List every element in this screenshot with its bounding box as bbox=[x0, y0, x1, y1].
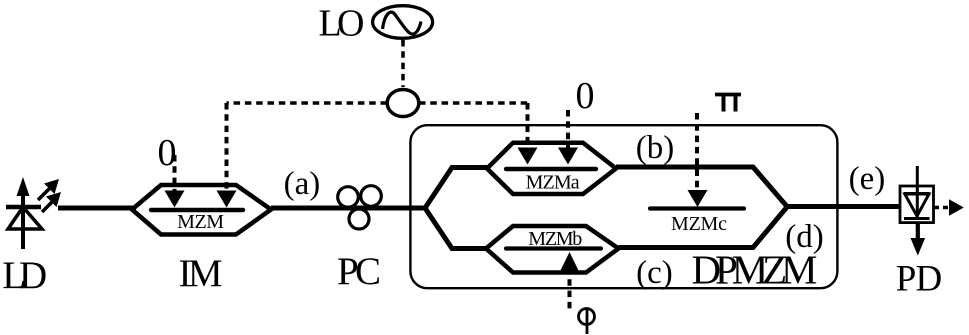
IM RF arrow right (from LO) bbox=[217, 103, 237, 208]
MZMa bias arrow bbox=[558, 110, 578, 165]
svg-text:MZMa: MZMa bbox=[526, 172, 580, 194]
svg-text:(e): (e) bbox=[849, 161, 886, 197]
IM electrode bar bbox=[151, 208, 243, 212]
svg-text:IM: IM bbox=[179, 252, 223, 295]
LD emission arrow 1 bbox=[38, 179, 59, 200]
MZMb electrode bar bbox=[506, 246, 601, 250]
wire IM to DPMZM bbox=[271, 206, 427, 211]
photodetector PD bbox=[900, 166, 934, 223]
modulator IM hexagon bbox=[132, 185, 271, 235]
upper arm wire MZMa to combiner bbox=[616, 167, 787, 207]
svg-text:MZMb: MZMb bbox=[528, 228, 582, 250]
MZMa electrode bar bbox=[506, 167, 596, 171]
svg-text:(b): (b) bbox=[636, 130, 674, 166]
svg-text:PD: PD bbox=[896, 259, 943, 300]
LD emission arrow 2 bbox=[42, 192, 61, 212]
dashed wire splitter to MZMa bbox=[419, 101, 528, 105]
MZMb phase arrow (phi) bbox=[561, 252, 579, 311]
label phi bbox=[579, 309, 595, 335]
MZMa RF arrow (from LO) bbox=[518, 103, 538, 165]
svg-text:MZMc: MZMc bbox=[671, 213, 727, 235]
polarization controller PC bbox=[338, 186, 382, 229]
svg-text:MZM: MZM bbox=[177, 211, 224, 233]
output wire to PD bbox=[787, 204, 900, 209]
laser diode LD symbol bbox=[6, 177, 42, 249]
svg-text:PC: PC bbox=[337, 250, 381, 293]
PD output arrow down bbox=[911, 223, 926, 256]
MZMc bias arrow (pi) bbox=[688, 113, 708, 207]
RF splitter bbox=[387, 90, 419, 117]
IM bias arrow left bbox=[165, 155, 185, 208]
wire LO to splitter (dashed) bbox=[401, 40, 405, 87]
modulator MZMb hexagon bbox=[486, 226, 619, 273]
PD RF out dashed arrow bbox=[934, 199, 964, 215]
modulator MZMa hexagon bbox=[487, 143, 616, 194]
label pi bbox=[715, 94, 741, 112]
LO source bbox=[373, 6, 433, 39]
svg-text:LO: LO bbox=[319, 2, 365, 44]
svg-text:LD: LD bbox=[2, 254, 47, 297]
svg-text:0: 0 bbox=[158, 132, 177, 174]
wire LD to IM bbox=[58, 206, 136, 211]
svg-text:(a): (a) bbox=[284, 166, 321, 202]
svg-text:0: 0 bbox=[576, 75, 595, 117]
svg-text:(d): (d) bbox=[785, 219, 823, 255]
dashed wire splitter to IM bbox=[227, 101, 388, 105]
svg-text:(c): (c) bbox=[636, 255, 673, 291]
DPMZM box bbox=[410, 125, 837, 288]
input Y splitter wire upper bbox=[425, 168, 487, 209]
lower arm wire MZMb to combiner bbox=[619, 207, 788, 248]
modulator MZMc electrode bar bbox=[650, 206, 744, 210]
input Y splitter wire lower bbox=[425, 208, 487, 249]
